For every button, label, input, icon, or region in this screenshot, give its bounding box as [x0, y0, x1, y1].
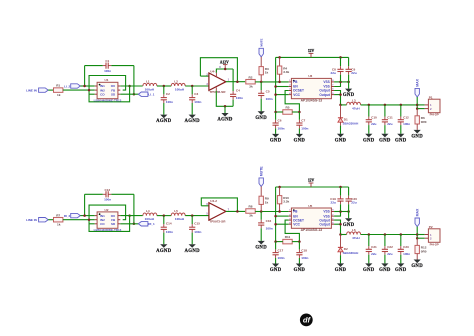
junction R5 right: [298, 111, 301, 114]
svg-text:RI_2: RI_2: [64, 214, 71, 218]
junction R10-FB: [278, 210, 281, 213]
wire pin1: [417, 234, 425, 236]
svg-text:GND: GND: [411, 264, 423, 269]
resistor R11: [283, 235, 292, 244]
junction output: [128, 214, 131, 217]
net flag MAX: [415, 78, 419, 97]
svg-text:GND: GND: [294, 268, 306, 273]
capacitor C2: [161, 86, 173, 115]
wire R12 bottom: [416, 254, 418, 260]
svg-text:GND: GND: [255, 116, 267, 121]
wire R11 left: [276, 241, 283, 243]
junction EN: [274, 85, 277, 88]
svg-text:AP1034SG-13: AP1034SG-13: [301, 99, 323, 103]
junction A12V: [224, 68, 227, 71]
junction R11 right: [298, 240, 301, 243]
svg-text:AGND: AGND: [185, 119, 201, 124]
svg-text:22u: 22u: [351, 71, 356, 75]
svg-text:LI_1: LI_1: [148, 92, 154, 96]
junction VCC: [274, 223, 277, 226]
svg-text:R7: R7: [56, 213, 60, 217]
wire inv input: [201, 205, 209, 207]
junction FB node: [260, 81, 263, 84]
ground: [294, 134, 306, 144]
svg-text:C18: C18: [301, 248, 307, 252]
svg-text:3.3k: 3.3k: [283, 70, 289, 74]
capacitor C13: [85, 188, 134, 202]
svg-text:GND: GND: [270, 139, 282, 144]
junction switch node: [339, 233, 342, 236]
wire V+ rail: [216, 69, 233, 73]
wire out2: [334, 94, 340, 96]
svg-text:R1: R1: [56, 84, 60, 88]
capacitor C4: [230, 69, 243, 106]
junction C14: [163, 214, 166, 217]
wire to opamp: [185, 215, 209, 217]
wire out1: [334, 220, 340, 234]
wire VSS2: [334, 212, 340, 217]
svg-text:L3: L3: [352, 98, 356, 102]
junction C15: [191, 214, 194, 217]
capacitor C8: [331, 57, 344, 82]
svg-text:47uH: 47uH: [352, 107, 360, 111]
svg-text:100n: 100n: [266, 227, 273, 231]
capacitor C3: [189, 86, 201, 115]
ground: [270, 264, 282, 274]
capacitor C20: [346, 187, 358, 212]
capacitor C11: [382, 105, 393, 134]
svg-text:1k: 1k: [265, 71, 269, 75]
junction VSS b: [347, 81, 350, 84]
svg-text:P1: P1: [429, 95, 433, 99]
IC U2: [94, 208, 122, 232]
inductor L2: [171, 79, 185, 91]
svg-text:LB50440DWE-TR13: LB50440DWE-TR13: [94, 98, 122, 102]
svg-text:VSS: VSS: [323, 210, 329, 214]
svg-text:22u: 22u: [351, 201, 356, 205]
svg-text:1k: 1k: [57, 93, 61, 97]
capacitor C14: [161, 216, 173, 245]
wire C1 right: [133, 66, 135, 95]
svg-text:GND: GND: [395, 138, 407, 143]
wire D2 lead: [340, 252, 342, 255]
power flag A12V: [220, 60, 229, 69]
net flag LI_2: [71, 84, 81, 88]
junction out: [339, 93, 342, 96]
wire opamp out: [226, 210, 245, 212]
svg-text:C23: C23: [403, 245, 409, 249]
net flag LINE IN: [39, 88, 49, 92]
svg-text:PH-2P: PH-2P: [430, 113, 439, 117]
wire D2 top: [340, 235, 342, 248]
wire VCC: [276, 223, 289, 225]
svg-text:L4: L4: [146, 209, 150, 213]
resistor R6: [415, 116, 427, 124]
svg-text:U1: U1: [105, 78, 109, 82]
svg-text:U3: U3: [308, 74, 312, 78]
junction C22: [384, 233, 387, 236]
inductor L6: [347, 228, 361, 240]
capacitor C5: [258, 82, 273, 111]
wire R10 bottom: [279, 204, 281, 212]
svg-text:100n: 100n: [104, 198, 111, 202]
resistor R1: [54, 84, 63, 97]
junction output: [128, 85, 131, 88]
junction VSS a: [339, 210, 342, 213]
svg-text:C22: C22: [387, 245, 393, 249]
svg-text:R5: R5: [286, 106, 290, 110]
wire C1 left: [84, 66, 86, 86]
connector P1: [425, 95, 440, 116]
ground: [294, 264, 306, 274]
svg-text:C16: C16: [266, 219, 272, 223]
IC U1: [94, 78, 122, 102]
wire inner loop: [89, 76, 126, 91]
wire FB: [261, 211, 289, 213]
wire 12V rail: [276, 56, 349, 58]
resistor R8: [246, 205, 255, 218]
svg-text:100n: 100n: [403, 252, 410, 256]
wire pin1: [417, 104, 425, 106]
svg-text:MAX: MAX: [415, 78, 419, 86]
junction C11: [384, 104, 387, 107]
junction pin2: [416, 237, 419, 240]
svg-text:GND: GND: [335, 268, 347, 273]
svg-text:MUTE: MUTE: [259, 166, 263, 177]
junction R10 top: [278, 186, 281, 189]
junction R11 left: [274, 240, 277, 243]
capacitor C12: [398, 105, 411, 134]
svg-text:22u: 22u: [371, 122, 376, 126]
wire D1 top: [340, 105, 342, 118]
wire L1-L2: [157, 85, 171, 87]
wire EN: [276, 215, 289, 217]
junction opamp out: [236, 80, 239, 83]
wire flag down: [416, 97, 418, 109]
svg-text:GND: GND: [363, 138, 375, 143]
svg-text:L2: L2: [174, 79, 178, 83]
svg-text:C21: C21: [371, 245, 377, 249]
wire lower out: [120, 223, 138, 225]
junction C12: [400, 104, 403, 107]
logo df: [300, 314, 313, 327]
svg-text:12V: 12V: [308, 49, 315, 53]
wire bottom loop: [89, 216, 130, 232]
svg-text:100n: 100n: [301, 126, 308, 130]
op-amp U4-1: [206, 69, 229, 94]
junction R5 left: [274, 111, 277, 114]
ground: [343, 89, 355, 99]
svg-text:12V: 12V: [308, 179, 315, 183]
wire opamp feedback: [200, 58, 237, 82]
junction VSS a: [339, 81, 342, 84]
wire GND stem: [348, 212, 350, 219]
wire opamp feedback: [201, 198, 237, 212]
ground: [379, 134, 391, 144]
wire R10 top: [279, 187, 281, 196]
wire R5 right: [292, 111, 299, 113]
svg-text:C13: C13: [104, 188, 110, 192]
capacitor C18: [296, 242, 308, 264]
svg-text:LINE IN: LINE IN: [26, 88, 37, 92]
net flag RI_2: [71, 213, 81, 217]
capacitor C6: [273, 112, 285, 134]
svg-text:22u: 22u: [331, 71, 336, 75]
op-amp U4-2: [206, 199, 229, 224]
svg-text:100n: 100n: [403, 122, 410, 126]
svg-text:C4: C4: [236, 89, 240, 93]
resistor R7: [54, 213, 63, 226]
wire D1 lead: [340, 122, 342, 125]
svg-text:0R0: 0R0: [421, 250, 427, 254]
wire FB: [261, 81, 289, 83]
svg-text:22u: 22u: [331, 201, 336, 205]
wire R9 bottom: [260, 204, 262, 211]
svg-text:C14: C14: [166, 222, 172, 226]
wire to opamp: [185, 85, 209, 87]
svg-text:R2: R2: [249, 75, 253, 79]
junction R4-FB: [278, 81, 281, 84]
junction C19: [339, 186, 342, 189]
ground: [335, 263, 347, 273]
resistor R4: [277, 66, 289, 74]
svg-text:3k: 3k: [249, 214, 253, 218]
svg-text:MUTE: MUTE: [259, 38, 263, 46]
svg-text:C5: C5: [266, 90, 270, 94]
svg-text:FB: FB: [293, 80, 298, 84]
svg-text:L5: L5: [174, 209, 178, 213]
capacitor C10: [366, 105, 377, 134]
wire V- wire: [216, 91, 233, 107]
wire flag to R7: [48, 219, 53, 221]
capacitor C7: [296, 112, 308, 134]
wire R12 top: [416, 238, 418, 245]
svg-text:MAX: MAX: [415, 208, 419, 216]
wire R2 right: [255, 81, 261, 83]
svg-text:C12: C12: [403, 115, 409, 119]
svg-text:100uH: 100uH: [145, 217, 155, 221]
wire flag stub: [80, 85, 94, 87]
svg-text:LI_2: LI_2: [64, 84, 70, 88]
wire R4 top: [279, 57, 281, 66]
junction input stub: [83, 214, 86, 217]
power flag 12V: [308, 179, 315, 187]
junction rail end: [416, 104, 419, 107]
svg-text:U2: U2: [105, 208, 109, 212]
wire R8 right: [255, 211, 261, 213]
regulator U3: [289, 74, 335, 102]
junction VSS b: [347, 210, 350, 213]
power flag 12V: [308, 49, 315, 57]
wire flag stub: [80, 215, 94, 217]
diode D1: [338, 117, 358, 125]
analog ground: [156, 115, 172, 125]
svg-text:R11: R11: [285, 235, 291, 239]
ground: [363, 134, 375, 144]
wire flag to R9: [260, 187, 262, 197]
junction input: [88, 218, 91, 221]
net flag MAX: [415, 208, 419, 227]
junction C1 right: [133, 93, 136, 96]
svg-text:GND: GND: [255, 246, 267, 251]
svg-text:22u: 22u: [387, 122, 392, 126]
wire GND stem: [348, 82, 350, 89]
capacitor C22: [382, 235, 393, 264]
svg-text:GND: GND: [363, 268, 375, 273]
svg-text:100uH: 100uH: [175, 88, 185, 92]
svg-text:AGND: AGND: [156, 119, 172, 124]
junction rail end: [416, 233, 419, 236]
net flag LINE IN: [39, 218, 49, 222]
svg-text:LB50440DWE-TR13: LB50440DWE-TR13: [94, 228, 122, 232]
svg-text:100n: 100n: [166, 100, 173, 104]
capacitor C1: [85, 59, 134, 73]
inductor L3: [347, 98, 361, 110]
svg-text:47uH: 47uH: [352, 236, 360, 240]
net flag MUTE: [259, 38, 263, 56]
svg-text:C17: C17: [278, 248, 284, 252]
wire 12V rail: [276, 186, 349, 188]
svg-text:C1: C1: [105, 59, 109, 63]
svg-text:CO: CO: [100, 222, 105, 226]
svg-text:VSS: VSS: [323, 80, 329, 84]
wire C13 right: [133, 194, 135, 224]
wire inner loop: [89, 205, 126, 220]
junction FB node: [260, 210, 263, 213]
wire pin2: [417, 108, 425, 110]
svg-text:A12V: A12V: [220, 60, 229, 64]
svg-text:100n: 100n: [266, 97, 273, 101]
svg-text:VCC: VCC: [293, 93, 300, 97]
svg-text:C2: C2: [166, 92, 170, 96]
regulator U5: [289, 204, 335, 232]
ground: [411, 130, 423, 140]
junction opamp out: [236, 210, 239, 213]
svg-text:0R0: 0R0: [421, 120, 427, 124]
junction C23: [400, 233, 403, 236]
svg-text:AGND: AGND: [156, 249, 172, 254]
junction out: [339, 223, 342, 226]
svg-text:Output: Output: [319, 222, 330, 226]
svg-text:100n: 100n: [278, 126, 285, 130]
capacitor C17: [273, 242, 285, 264]
svg-text:100n: 100n: [194, 230, 201, 234]
wire bottom loop: [89, 86, 130, 102]
wire flag to R3: [260, 57, 262, 67]
svg-text:VCC: VCC: [293, 222, 300, 226]
junction C21: [368, 233, 371, 236]
inductor L4: [143, 209, 157, 221]
svg-text:C11: C11: [387, 115, 393, 119]
svg-text:SBA330AH: SBA330AH: [343, 251, 359, 255]
net flag RI_1: [138, 222, 148, 226]
inductor L1: [143, 79, 157, 91]
svg-text:R8: R8: [249, 205, 253, 209]
wire 12V vertical: [275, 57, 277, 112]
junction switch node: [339, 104, 342, 107]
svg-text:AGND: AGND: [185, 249, 201, 254]
svg-text:100n: 100n: [194, 100, 201, 104]
wire to L6: [341, 234, 347, 236]
svg-text:100n: 100n: [236, 96, 243, 100]
svg-text:GND: GND: [294, 139, 306, 144]
wire flag down: [416, 227, 418, 239]
capacitor C21: [366, 235, 377, 264]
svg-text:Output: Output: [319, 93, 330, 97]
svg-text:LINE IN: LINE IN: [26, 218, 37, 222]
svg-text:C3: C3: [194, 92, 198, 96]
svg-text:U5: U5: [308, 204, 312, 208]
svg-text:GND: GND: [379, 268, 391, 273]
ground: [343, 218, 355, 228]
junction C10: [368, 104, 371, 107]
capacitor C16: [258, 212, 273, 241]
capacitor C9: [346, 57, 357, 82]
wire flag to R1: [48, 89, 53, 91]
wire lower out: [120, 93, 138, 95]
resistor R12: [415, 245, 427, 253]
svg-text:1k: 1k: [265, 200, 269, 204]
svg-text:GND: GND: [270, 268, 282, 273]
svg-text:FB: FB: [293, 210, 298, 214]
svg-text:L6: L6: [352, 228, 356, 232]
svg-text:L1: L1: [146, 79, 150, 83]
ground: [255, 241, 267, 251]
svg-text:GND: GND: [395, 268, 407, 273]
wire D2 bottom: [340, 255, 342, 263]
resistor R10: [277, 196, 289, 204]
wire output rail: [361, 234, 418, 236]
wire opamp out: [226, 81, 245, 83]
junction C8: [339, 56, 342, 59]
analog ground: [185, 115, 201, 125]
wire R4 bottom: [279, 74, 281, 82]
wire to L3: [341, 104, 347, 106]
wire V+ stub: [215, 73, 217, 76]
resistor R5: [283, 106, 292, 115]
ground: [395, 134, 407, 144]
wire AGND stem: [224, 106, 226, 113]
resistor R2: [246, 75, 255, 88]
wire out2: [334, 223, 340, 225]
svg-text:22u: 22u: [387, 252, 392, 256]
svg-text:100uH: 100uH: [175, 217, 185, 221]
wire inv input: [200, 75, 209, 77]
wire pin2: [417, 237, 425, 239]
wire DCSET: [285, 220, 299, 242]
ground: [379, 263, 391, 273]
svg-text:SBA330AH: SBA330AH: [343, 121, 359, 125]
svg-text:100uH: 100uH: [145, 88, 155, 92]
wire R1 to U1: [63, 89, 95, 91]
ground: [395, 263, 407, 273]
diode D2: [338, 247, 358, 255]
wire VCC: [276, 94, 289, 96]
wire VSS2: [334, 82, 340, 87]
junction C3: [191, 85, 194, 88]
junction EN: [274, 215, 277, 218]
wire output: [120, 215, 142, 217]
ground: [411, 260, 423, 270]
svg-text:PH-2P: PH-2P: [430, 242, 439, 246]
junction C2: [163, 85, 166, 88]
svg-text:100n: 100n: [166, 230, 173, 234]
wire C13 left: [84, 194, 86, 215]
junction R4 top: [278, 56, 281, 59]
svg-text:C7: C7: [301, 119, 305, 123]
wire out1: [334, 91, 340, 105]
analog ground: [185, 244, 201, 254]
